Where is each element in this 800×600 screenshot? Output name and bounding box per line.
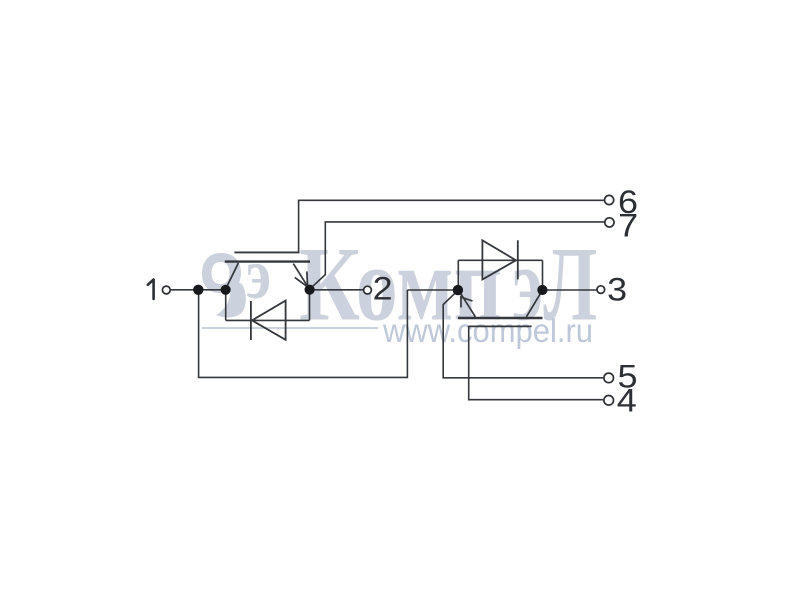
- watermark logo swirl: [202, 234, 271, 317]
- svg-text:2: 2: [373, 271, 393, 307]
- gate 1 wire to terminal 6: [299, 200, 604, 252]
- terminal 5 circle: [604, 373, 614, 383]
- diode D2 triangle: [482, 240, 516, 279]
- node C junction: [305, 285, 315, 295]
- gate 2 wire to terminal 4: [469, 326, 603, 400]
- auxiliary emitter 1 wire to terminal 7: [310, 222, 604, 289]
- diode D2 branch top wire: [458, 259, 542, 261]
- IGBT Q1 channel bar: [225, 260, 310, 262]
- IGBT Q1 gate plate: [234, 251, 299, 253]
- node E junction: [537, 285, 547, 295]
- node A junction: [193, 285, 203, 295]
- IGBT Q1 collector slant: [226, 263, 239, 289]
- IGBT Q2 emitter arrow barb a: [460, 296, 462, 308]
- terminal 4 circle: [604, 396, 614, 406]
- IGBT Q1: [225, 252, 310, 288]
- IGBT Q2: [458, 292, 543, 327]
- diode D1: [251, 301, 286, 340]
- IGBT Q1 emitter arrow barb b: [295, 277, 307, 286]
- watermark underline rule: [202, 327, 378, 329]
- IGBT Q2 emitter slant: [459, 292, 475, 317]
- IGBT Q2 emitter arrow barb b: [462, 297, 473, 301]
- terminal 1 circle: [162, 286, 170, 294]
- svg-text:э: э: [246, 234, 271, 314]
- wire node D up to diode branch: [457, 260, 459, 290]
- wire diode branch up to node C: [309, 290, 311, 321]
- wire to node D: [407, 289, 457, 291]
- bottom rail wire: [198, 376, 408, 378]
- wire node A down to bottom rail: [198, 290, 200, 378]
- diode D2 cathode bar: [517, 240, 519, 279]
- IGBT Q2 gate plate: [469, 325, 532, 327]
- node D junction: [453, 285, 463, 295]
- IGBT Q1 emitter arrow barb a: [306, 271, 309, 286]
- terminal 2 circle: [364, 286, 372, 294]
- wire bottom rail up to node D level: [406, 290, 408, 378]
- IGBT Q2 collector slant: [526, 292, 541, 317]
- svg-text:3: 3: [607, 272, 627, 308]
- IGBT Q1 emitter slant: [293, 264, 309, 289]
- svg-text:4: 4: [617, 383, 637, 419]
- terminal 6 circle: [605, 195, 614, 204]
- diode D1 branch bottom wire: [226, 319, 310, 321]
- diode D1 cathode bar: [250, 301, 252, 340]
- IGBT Q2 channel bar: [458, 317, 543, 319]
- terminal 7 circle: [605, 218, 614, 227]
- node B junction: [221, 285, 231, 295]
- terminal 3 circle: [597, 286, 605, 294]
- pin label 1: [148, 280, 154, 299]
- wire node A to node B: [198, 289, 226, 291]
- wire node B down to diode branch: [225, 290, 227, 321]
- wire node E to terminal 3: [542, 289, 596, 291]
- wire node C to terminal 2: [310, 289, 363, 291]
- diode D2: [482, 240, 517, 279]
- svg-text:7: 7: [618, 208, 638, 244]
- wire diode branch down to node E: [542, 260, 544, 290]
- diode D1 triangle: [252, 301, 286, 340]
- auxiliary emitter 2 wire to terminal 5: [443, 292, 603, 378]
- terminal 1 lead wire: [171, 289, 198, 291]
